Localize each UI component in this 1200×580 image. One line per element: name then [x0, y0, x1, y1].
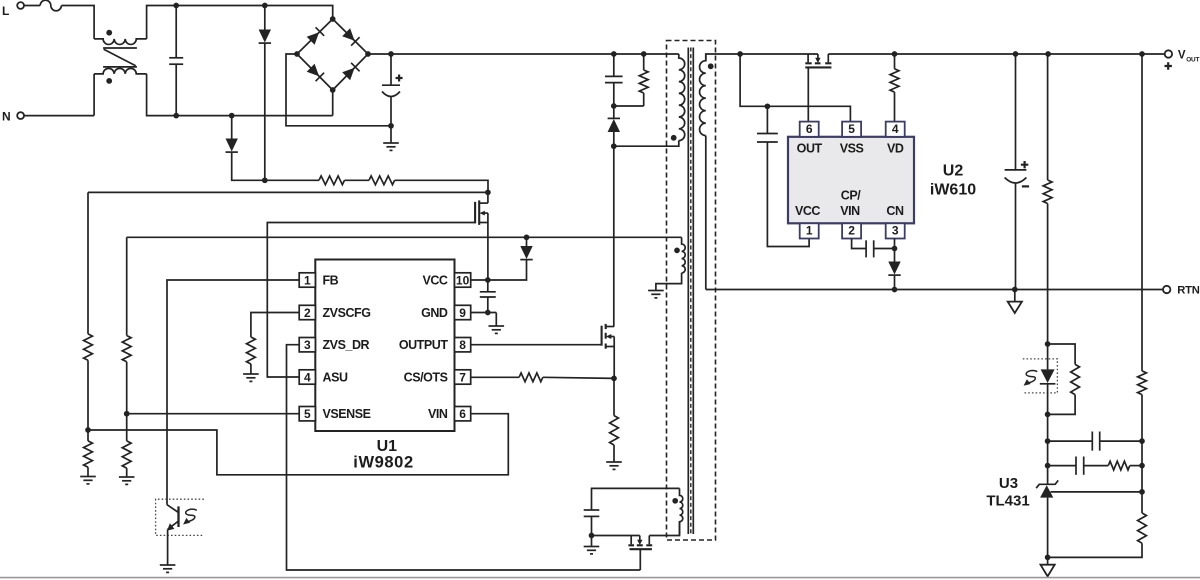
- choke bottom polarity dot: [106, 78, 112, 84]
- wire bridge bottom to N line: [332, 90, 334, 116]
- junction VCC node: [485, 277, 491, 283]
- junction opto led bottom: [1045, 412, 1051, 418]
- U2 pin 3 CN: [886, 223, 905, 238]
- svg-text:4: 4: [892, 122, 899, 136]
- ground current sense: [606, 461, 622, 463]
- U2 pin 6 OUT: [800, 122, 819, 137]
- svg-text:10: 10: [456, 273, 470, 287]
- mosfet Q4 sync rectifier: [807, 54, 809, 62]
- junction vout divider top: [1139, 51, 1145, 57]
- junction snubber cap top: [611, 51, 617, 57]
- wire U2 cp pin2: [852, 239, 867, 249]
- U2 pin 1 VCC: [800, 223, 819, 238]
- bridge diode lower-left: [307, 64, 319, 76]
- U2 pin 2 CP/VIN: [842, 223, 861, 238]
- common-mode choke L1 top winding: [94, 39, 147, 45]
- junction bridge right: [365, 51, 371, 57]
- junction comp rc node: [1045, 463, 1051, 469]
- junction divider rc: [1139, 463, 1145, 469]
- ic U2 body: [788, 137, 914, 224]
- transformer secondary winding: [700, 54, 706, 136]
- wire L rail to bridge top: [265, 6, 333, 20]
- secondary polarity dot: [708, 63, 714, 69]
- common-mode choke L1 bottom winding: [94, 68, 147, 74]
- capacitor C6 u2 vcc: [766, 106, 768, 133]
- svg-text:5: 5: [848, 122, 855, 136]
- U1 pin 5 VSENSE: [299, 407, 315, 421]
- capacitor C2 clamp: [613, 54, 615, 76]
- junction cn to rtn: [892, 287, 898, 293]
- junction X-cap top: [173, 3, 179, 9]
- junction snubber res top: [641, 51, 647, 57]
- junction vsense tap: [124, 411, 130, 417]
- capacitor C5 zvs: [584, 509, 600, 511]
- junction CS node: [611, 376, 617, 382]
- svg-text:N: N: [2, 110, 11, 124]
- junction X-cap bottom: [173, 113, 179, 119]
- svg-text:6: 6: [459, 407, 466, 421]
- svg-text:5: 5: [304, 407, 311, 421]
- resistor R14 comp rc: [1108, 461, 1129, 470]
- svg-text:6: 6: [806, 122, 813, 136]
- wire vss run: [740, 54, 850, 122]
- svg-text:VSS: VSS: [840, 142, 864, 156]
- ground vin divider: [80, 476, 96, 478]
- junction startup drain node: [485, 190, 491, 196]
- svg-text:9: 9: [459, 306, 466, 320]
- wire choke bottom-right to bridge: [147, 74, 333, 116]
- ground zvscfg: [243, 373, 259, 375]
- wire drain node down to MOSFET: [613, 146, 615, 326]
- node L input terminal: [17, 2, 24, 9]
- svg-text:3: 3: [892, 224, 899, 238]
- fuse F1: [40, 0, 61, 11]
- ground tl431: [1047, 557, 1049, 564]
- wire VIN run: [88, 414, 508, 475]
- ground vsense divider: [119, 476, 135, 478]
- bottom border line: [0, 577, 1200, 579]
- svg-text:iW9802: iW9802: [353, 453, 413, 471]
- U1 pin 8 OUTPUT: [455, 338, 471, 352]
- svg-text:U3: U3: [999, 475, 1018, 492]
- resistor R16 divider lower: [1138, 513, 1147, 543]
- wire opto emitter to ground: [167, 529, 169, 565]
- transformer aux winding 2 (zvs): [680, 488, 683, 535]
- junction tl431 anode node: [1045, 555, 1051, 561]
- ground aux1: [648, 290, 664, 292]
- junction vcc cap top: [765, 103, 771, 109]
- svg-text:L: L: [2, 4, 9, 18]
- wire fuse to choke: [61, 6, 94, 39]
- ground bulk cap: [390, 126, 392, 143]
- junction aux1 vcc tap: [524, 234, 530, 240]
- svg-text:FB: FB: [323, 273, 339, 287]
- junction vss tap: [737, 51, 743, 57]
- diode D3 clamp: [613, 106, 615, 118]
- ic U1 body: [315, 260, 454, 432]
- wire L to fuse: [24, 5, 40, 7]
- resistor R2 input sense: [345, 179, 370, 181]
- junction bulk cap top: [388, 51, 394, 57]
- capacitor C8 output electrolytic: [1015, 54, 1017, 170]
- wire aux sense line: [127, 236, 682, 238]
- wire drain node to divider: [88, 191, 488, 193]
- wire led to tl431: [1047, 414, 1049, 484]
- capacitor CX across line: [175, 6, 177, 58]
- diode D4 vcc: [526, 237, 528, 246]
- wire VSENSE to divider: [127, 413, 300, 415]
- choke core: [103, 47, 137, 49]
- svg-text:ASU: ASU: [323, 370, 348, 384]
- junction GND node: [485, 310, 491, 316]
- svg-text:OUT: OUT: [1186, 56, 1199, 63]
- wire secondary to output rail: [706, 54, 818, 61]
- wire input sense to drain node: [395, 180, 488, 192]
- shunt regulator U3 TL431: [1036, 480, 1058, 488]
- svg-text:VSENSE: VSENSE: [323, 407, 371, 421]
- mosfet Q1 main switch: [601, 326, 603, 346]
- ground signal return: [1014, 290, 1016, 302]
- resistor R12 upper feedback: [1047, 54, 1049, 180]
- U1 pin 4 ASU: [299, 370, 315, 384]
- junction clamp mid: [611, 103, 617, 109]
- wire ASU run: [267, 223, 475, 378]
- ground opto emitter: [160, 564, 176, 566]
- capacitor C9 compensation: [1048, 440, 1093, 442]
- U1 pin 10 VCC: [455, 273, 471, 287]
- capacitor C7 cp: [865, 240, 867, 257]
- U1 pin 9 GND: [455, 305, 471, 319]
- ground zvs cap: [591, 536, 593, 547]
- svg-text:1: 1: [806, 224, 813, 238]
- resistor R1 input sense: [265, 179, 319, 181]
- svg-text:2: 2: [304, 306, 311, 320]
- resistor R9 vsense divider upper: [126, 237, 128, 335]
- U1 pin 3 ZVS_DR: [299, 338, 315, 352]
- bridge diode upper-left: [307, 32, 319, 44]
- svg-text:2: 2: [848, 224, 855, 238]
- wire RTN line: [706, 289, 1164, 291]
- junction vd resistor top: [892, 51, 898, 57]
- primary polarity dot: [671, 135, 677, 141]
- junction vin divider tap: [85, 427, 91, 433]
- node N input terminal: [17, 112, 24, 119]
- svg-text:VCC: VCC: [795, 204, 820, 218]
- wire tl431 ref: [1051, 491, 1142, 493]
- wire ZVSCFG to resistor: [251, 313, 300, 338]
- wire choke bottom-left down to N: [93, 74, 95, 116]
- svg-text:U2: U2: [943, 163, 964, 180]
- wire OUTPUT to gate: [470, 344, 601, 346]
- U1 pin 7 CS/OTS: [455, 370, 471, 384]
- bridge BR1 frame: [297, 19, 368, 90]
- bridge diode lower-right: [342, 68, 354, 80]
- svg-text:U1: U1: [377, 438, 398, 455]
- capacitor C10 comp rc: [1048, 465, 1076, 467]
- resistor R4 vin divider upper: [87, 192, 89, 334]
- wire N to choke: [24, 115, 94, 117]
- wire VCC pin to node: [470, 279, 487, 281]
- transformer core: [687, 48, 689, 535]
- wire bridge left to minus bus: [286, 54, 391, 126]
- junction zvs source node: [589, 533, 595, 539]
- wire HV rail: [368, 53, 679, 55]
- junction output cap top: [1013, 51, 1019, 57]
- junction drain node: [611, 143, 617, 149]
- wire output rail right: [828, 53, 1164, 55]
- wire choke top-right up to rail: [147, 6, 265, 39]
- wire secondary bottom to RTN: [705, 136, 707, 290]
- wire drain node to primary bottom: [614, 141, 679, 147]
- svg-text:3: 3: [304, 338, 311, 352]
- resistor R7 cs: [519, 373, 543, 382]
- svg-text:RTN: RTN: [1177, 285, 1199, 297]
- svg-text:VD: VD: [887, 142, 904, 156]
- wire aux2 top to cap: [592, 488, 680, 510]
- wire U2 cn pin3: [894, 239, 896, 249]
- svg-text:iW610: iW610: [930, 182, 976, 199]
- junction divider ref: [1139, 489, 1145, 495]
- wire ZVS_DR run: [287, 345, 641, 570]
- choke top polarity dot: [106, 30, 112, 36]
- aux1 polarity dot: [674, 248, 680, 254]
- mosfet Q2 startup: [474, 202, 476, 224]
- svg-text:GND: GND: [421, 306, 448, 320]
- svg-text:OUT: OUT: [797, 142, 823, 156]
- junction output cap rtn: [1012, 287, 1018, 293]
- junction N-line diode branch: [229, 113, 235, 119]
- ground U1 GND: [495, 313, 497, 327]
- svg-text:ZVS_DR: ZVS_DR: [323, 338, 370, 352]
- resistor R3 clamp: [643, 54, 645, 70]
- capacitor C1 bulk electrolytic: [390, 54, 392, 85]
- wire aux1 bottom to ground: [656, 273, 682, 291]
- junction bleeder top: [1045, 51, 1051, 57]
- U2 pin 4 VD: [886, 122, 905, 137]
- U1 pin 1 FB: [299, 273, 315, 287]
- node VOUT terminal: [1165, 50, 1172, 57]
- junction comp cap node: [1045, 438, 1051, 444]
- U1 pin 2 ZVSCFG: [299, 305, 315, 319]
- optocoupler U4 phototransistor: [156, 499, 204, 535]
- svg-text:CN: CN: [886, 204, 904, 218]
- svg-text:7: 7: [459, 370, 466, 384]
- node RTN terminal: [1163, 286, 1170, 293]
- svg-text:8: 8: [459, 338, 466, 352]
- wire GND pin to node: [470, 312, 496, 314]
- diode D1 from L rail: [264, 6, 266, 30]
- wire aux2 bottom to fet: [649, 522, 679, 536]
- transformer T1 dashed box: [667, 41, 716, 541]
- junction bridge left: [294, 51, 300, 57]
- wire Q1 source to CS node: [613, 347, 615, 379]
- junction diode OR node: [262, 177, 268, 183]
- resistor R13 led parallel: [1048, 344, 1076, 364]
- wire CS/OTS: [470, 376, 519, 378]
- mosfet Q3 zvs: [592, 535, 640, 537]
- svg-text:OUTPUT: OUTPUT: [399, 338, 449, 352]
- svg-text:CS/OTS: CS/OTS: [404, 370, 448, 384]
- junction bridge top: [330, 16, 336, 22]
- svg-text:VCC: VCC: [422, 273, 447, 287]
- svg-text:CP/: CP/: [841, 189, 861, 203]
- svg-text:VIN: VIN: [840, 204, 860, 218]
- svg-text:4: 4: [304, 370, 311, 384]
- svg-text:ZVSCFG: ZVSCFG: [323, 306, 371, 320]
- bridge diode upper-right: [342, 28, 354, 40]
- resistor R11 vd: [894, 54, 896, 69]
- U1 pin 6 VIN: [455, 407, 471, 421]
- optocoupler U4 led: [1023, 359, 1058, 393]
- resistor R10 vsense divider lower: [126, 414, 128, 441]
- wire cs resistor to source: [543, 377, 614, 378]
- svg-text:1: 1: [304, 273, 311, 287]
- diode D5 cn: [894, 249, 896, 262]
- resistor R8 current sense: [613, 378, 615, 415]
- U2 pin 5 VSS: [842, 122, 861, 137]
- junction divider c9: [1139, 438, 1145, 444]
- transformer aux winding 1: [682, 237, 686, 273]
- junction minus bus: [388, 123, 394, 129]
- svg-text:V: V: [1178, 50, 1186, 62]
- wire FB to optocoupler: [167, 280, 299, 505]
- resistor R6 zvscfg: [246, 337, 255, 364]
- capacitor C4 vcc: [487, 280, 489, 292]
- junction bridge bottom: [330, 87, 336, 93]
- transformer primary winding: [679, 54, 685, 141]
- resistor R5 vin divider lower: [87, 430, 89, 441]
- junction cn node: [892, 246, 898, 252]
- resistor R15 divider upper: [1141, 54, 1143, 371]
- aux2 polarity dot: [672, 498, 678, 504]
- junction L-rail diode branch: [262, 3, 268, 9]
- junction opto led top: [1045, 341, 1051, 347]
- svg-text:VIN: VIN: [428, 407, 448, 421]
- svg-text:TL431: TL431: [986, 493, 1029, 510]
- diode D2 from N line: [231, 116, 233, 139]
